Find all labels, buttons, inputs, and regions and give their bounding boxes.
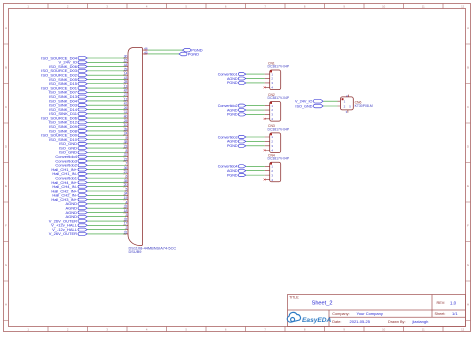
svg-text:E: E [5,184,7,188]
svg-text:PGND: PGND [227,173,238,177]
svg-text:1/1: 1/1 [452,311,458,316]
svg-text:Convertido4: Convertido4 [218,165,238,169]
svg-text:A: A [467,26,469,30]
svg-text:DC3817V-04P: DC3817V-04P [268,96,290,100]
svg-text:45: 45 [144,50,148,54]
svg-text:DSUB9: DSUB9 [129,249,142,254]
svg-text:11: 11 [422,5,425,9]
svg-text:DC3817V-04P: DC3817V-04P [268,127,290,131]
svg-text:F: F [5,224,7,228]
svg-text:C: C [5,105,7,109]
svg-text:Convertido3: Convertido3 [218,135,238,139]
svg-text:DC3817V-04P: DC3817V-04P [268,64,290,68]
svg-text:Drawn By:: Drawn By: [388,320,406,324]
svg-text:AGND: AGND [227,77,238,81]
svg-text:B: B [5,66,7,70]
svg-text:ISO_GND: ISO_GND [295,104,312,108]
svg-text:AGND: AGND [227,140,238,144]
svg-text:Convertido1: Convertido1 [218,72,238,76]
svg-text:Date:: Date: [332,320,341,324]
svg-text:Company:: Company: [332,312,349,316]
svg-text:31: 31 [124,230,128,234]
svg-text:12: 12 [461,5,465,9]
svg-text:KT30P08-M: KT30P08-M [355,104,373,108]
svg-text:2021-05-25: 2021-05-25 [350,319,371,324]
svg-text:PGND: PGND [227,81,238,85]
svg-text:11: 11 [422,328,425,332]
svg-text:D: D [467,145,469,149]
svg-text:G: G [467,263,469,267]
svg-text:F: F [467,224,469,228]
svg-text:Your Company: Your Company [357,311,383,316]
svg-text:10: 10 [382,5,386,9]
svg-text:Sheet_2: Sheet_2 [312,300,333,306]
svg-text:PGND: PGND [188,51,199,56]
svg-text:PGND: PGND [227,144,238,148]
svg-text:DC3817V-04P: DC3817V-04P [268,157,290,161]
svg-text:G: G [5,263,7,267]
svg-text:A: A [5,26,7,30]
svg-text:E: E [467,184,469,188]
svg-text:REV:: REV: [437,301,446,305]
svg-text:Convertido2: Convertido2 [218,104,238,108]
svg-text:AGND: AGND [227,169,238,173]
svg-text:EasyEDA: EasyEDA [302,317,332,324]
svg-text:D: D [5,145,7,149]
svg-text:12: 12 [461,328,465,332]
svg-text:PGND: PGND [227,113,238,117]
svg-text:B: B [467,66,469,70]
svg-text:TITLE:: TITLE: [289,296,299,300]
svg-text:V_24V_IO: V_24V_IO [295,100,313,104]
svg-text:jiaxiangh: jiaxiangh [412,319,429,324]
svg-text:10: 10 [382,328,386,332]
svg-text:1.0: 1.0 [450,300,457,305]
svg-text:H: H [5,303,7,307]
svg-text:C: C [467,105,469,109]
svg-text:Sheet:: Sheet: [435,312,446,316]
svg-text:V_26V_OUTER: V_26V_OUTER [49,231,77,236]
svg-text:AGND: AGND [227,108,238,112]
svg-text:H: H [467,303,469,307]
